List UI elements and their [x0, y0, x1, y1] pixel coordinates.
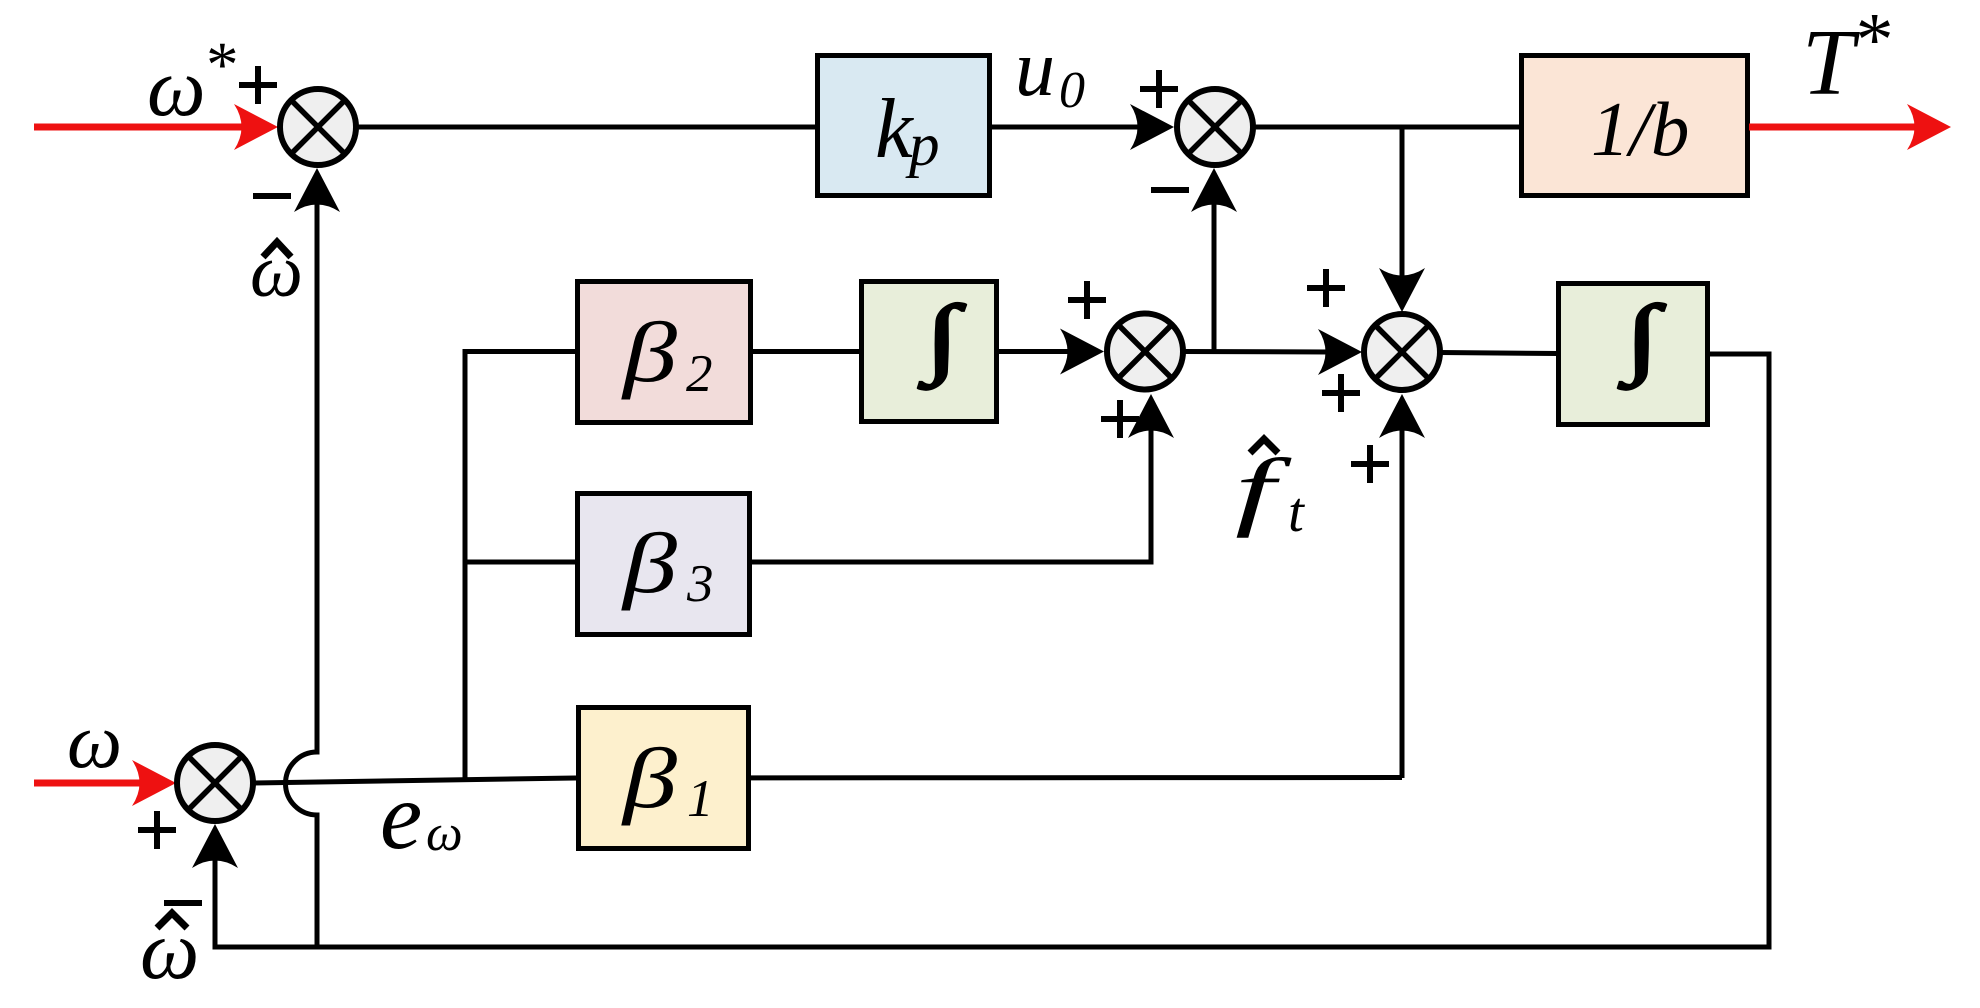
wire: S2 to 1/b with branch at x=1402	[1253, 125, 1521, 130]
wire: I1 to S3	[997, 349, 1070, 354]
arrowhead red into summing junction S1	[234, 104, 278, 150]
summing junction S2	[1177, 89, 1253, 165]
svg-text:f: f	[1235, 442, 1292, 539]
svg-text:t: t	[1288, 481, 1305, 544]
arrowhead up into S4 bottom	[1379, 394, 1425, 438]
arrowhead up into S2 bottom	[1191, 168, 1237, 212]
svg-text:2: 2	[686, 345, 713, 403]
svg-text:*: *	[1852, 0, 1890, 82]
arrowhead up into S1 bottom	[294, 168, 340, 212]
arrowhead down into S4 top	[1379, 268, 1425, 312]
svg-text:∫: ∫	[1618, 289, 1666, 390]
wire: S2 bottom input from node at (1214,351)	[1212, 200, 1217, 351]
svg-text:*: *	[203, 29, 236, 101]
summing junction S1	[280, 89, 356, 165]
wire: 1/b output red to T*	[1749, 124, 1920, 131]
plus sign at S3 left input	[1068, 281, 1106, 319]
plus sign at S4 left input	[1322, 374, 1360, 412]
plus sign at S3 bottom input	[1101, 400, 1139, 438]
wire: S3 output right to S4, junction at x=1214	[1183, 349, 1330, 355]
block integrator I1	[862, 282, 997, 422]
plus sign at S2 left input	[1140, 70, 1178, 108]
svg-text:β: β	[620, 515, 677, 611]
svg-text:ω: ω	[426, 805, 463, 862]
svg-text:β: β	[620, 730, 677, 826]
svg-text:0: 0	[1059, 62, 1085, 119]
svg-text:e: e	[380, 763, 422, 869]
minus sign at S2 bottom input	[1151, 187, 1189, 193]
minus sign at S1 bottom input	[253, 193, 291, 199]
minus sign at S5 bottom input	[164, 900, 202, 906]
block kp	[818, 56, 990, 196]
block beta2	[578, 282, 751, 423]
wire: omega input red line	[34, 780, 145, 787]
plus sign at S4 bottom input	[1351, 445, 1389, 483]
svg-text:β: β	[620, 304, 677, 400]
wire: ew output from S5 through beta1 to x=1402	[253, 778, 1402, 784]
svg-text:∫: ∫	[918, 289, 966, 390]
arrowhead into S4 left	[1318, 329, 1362, 375]
svg-text:ω: ω	[147, 41, 206, 133]
svg-text:3: 3	[686, 555, 714, 613]
block beta1	[579, 708, 749, 849]
plus sign at S1 input	[239, 66, 277, 104]
plus sign at S5 left input	[138, 811, 176, 849]
wire: S1 to kp	[356, 125, 817, 130]
wire: branch down to S4 top	[1400, 127, 1405, 280]
arrowhead red T* output	[1907, 104, 1951, 150]
svg-text:p: p	[905, 112, 940, 179]
block beta3	[578, 494, 750, 635]
arrowhead into S3 left	[1060, 329, 1104, 375]
svg-text:1/b: 1/b	[1591, 86, 1689, 172]
summing junction S4	[1364, 314, 1440, 390]
block 1/b	[1522, 56, 1748, 196]
wire: I2 output right and down and along bottom to S5	[215, 354, 1769, 947]
wire: beta1 output up into S4 bottom	[1400, 428, 1405, 778]
block integrator I2	[1559, 284, 1708, 425]
wire: kp to S2	[992, 125, 1140, 130]
plus sign at S4 top input	[1307, 269, 1345, 307]
arrowhead red into S5 left	[132, 760, 176, 806]
summing junction S3	[1107, 314, 1183, 390]
arrowhead up into S3 bottom	[1128, 394, 1174, 438]
svg-text:ω: ω	[67, 697, 122, 784]
wire: beta2 to integrator I1	[750, 349, 861, 354]
svg-text:u: u	[1015, 25, 1055, 113]
svg-text:1: 1	[687, 770, 714, 828]
arrowhead into S2 left	[1130, 104, 1174, 150]
wire: S4 to integrator I2	[1440, 353, 1558, 354]
arrowhead up into S5 bottom	[192, 824, 238, 868]
wire: beta3 output up into S3 bottom	[750, 428, 1151, 562]
wire: omega* input red line	[34, 124, 248, 131]
wire: omega-hat vertical branch with hop over ew line	[286, 200, 317, 947]
wire: branch to beta3	[465, 560, 577, 565]
wire: ew branch up at x=465 to beta2	[465, 352, 577, 782]
summing junction S5	[177, 745, 253, 821]
